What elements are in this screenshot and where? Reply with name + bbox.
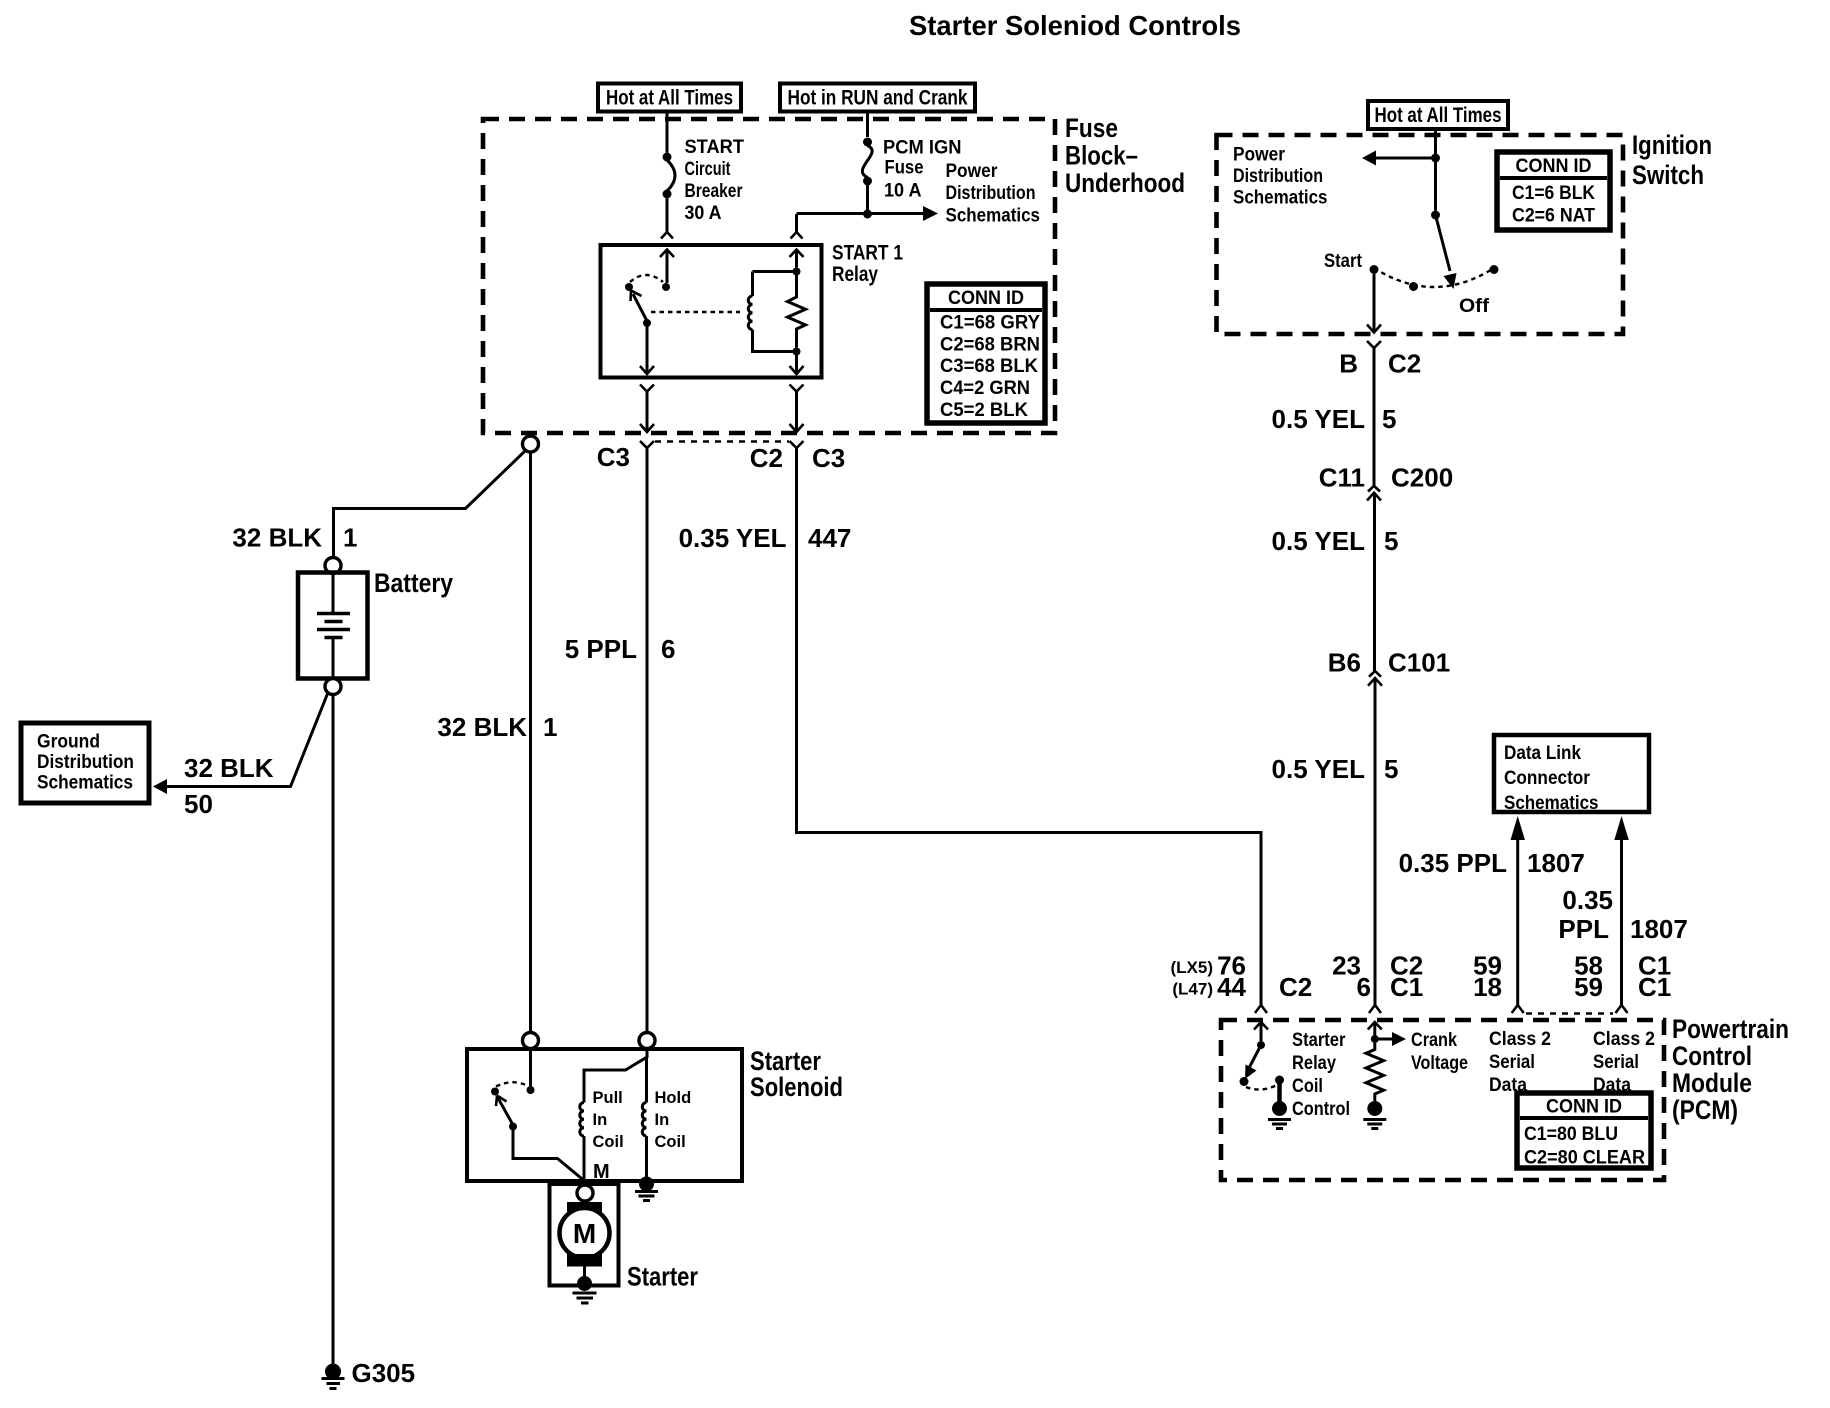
label B6 C101 (1328, 648, 1450, 678)
svg-text:Serial: Serial (1489, 1052, 1535, 1073)
svg-text:Fuse: Fuse (1065, 113, 1118, 143)
svg-text:CONN ID: CONN ID (1516, 156, 1592, 177)
label box Hot at All Times (ignition) (1368, 101, 1508, 129)
connector C3 dashed link (655, 440, 789, 442)
svg-text:5: 5 (1382, 404, 1396, 434)
svg-text:Schematics: Schematics (946, 206, 1041, 227)
solenoid switch input wire (529, 1049, 532, 1087)
svg-text:Powertrain: Powertrain (1672, 1014, 1789, 1044)
battery symbol (317, 573, 350, 679)
wire hot box into ignition switch (1434, 129, 1437, 211)
svg-text:START: START (685, 137, 745, 158)
Ground Distribution Schematics box (21, 723, 149, 803)
svg-text:Schematics: Schematics (1504, 793, 1599, 814)
ground at PCM resistor (1363, 1101, 1386, 1129)
svg-text:0.5 YEL: 0.5 YEL (1272, 526, 1366, 556)
label 0.5 YEL 5 (upper) (1272, 404, 1397, 434)
wire relay coil to PCM (0.35 YEL 447) (797, 448, 1262, 1005)
svg-text:G305: G305 (352, 1358, 416, 1388)
svg-text:Schematics: Schematics (1233, 188, 1328, 209)
node battery tap circle on fuse block (523, 436, 539, 452)
svg-text:Hold: Hold (655, 1089, 692, 1107)
PCM switch lever with arrow (1245, 1045, 1261, 1079)
connector fork at PCM pin 6 (1369, 1005, 1381, 1013)
wire CB to relay connector fork (661, 199, 673, 239)
ground at hold coil (635, 1177, 658, 1201)
svg-text:Block–: Block– (1065, 141, 1138, 171)
svg-text:Voltage: Voltage (1411, 1053, 1468, 1074)
svg-text:C11: C11 (1319, 463, 1365, 493)
svg-text:6: 6 (661, 634, 675, 664)
ground G305 (322, 1364, 345, 1389)
hold in coil winding (642, 1103, 646, 1179)
svg-text:Control: Control (1292, 1099, 1350, 1120)
relay coil output wire with down arrow (790, 352, 804, 375)
relay coil output fork below box (790, 385, 804, 432)
wire C200 to C101 (1373, 493, 1376, 671)
svg-text:447: 447 (808, 523, 851, 553)
svg-text:5: 5 (1384, 526, 1398, 556)
circuit breaker CB 30A (663, 153, 676, 199)
relay switch pivot dot (643, 319, 651, 327)
node fuse output junction (863, 210, 872, 219)
wire relay switch to solenoid (646, 448, 649, 1033)
PCM dashed box (1221, 1020, 1664, 1180)
solenoid switch left contact dot (491, 1088, 499, 1096)
svg-text:Starter Soleniod Controls: Starter Soleniod Controls (909, 10, 1241, 41)
svg-text:C1=80 BLU: C1=80 BLU (1524, 1124, 1618, 1145)
battery box (298, 573, 368, 679)
svg-text:Serial: Serial (1593, 1052, 1639, 1073)
svg-text:Distribution: Distribution (1233, 166, 1323, 187)
svg-text:Switch: Switch (1632, 160, 1704, 190)
solenoid right terminal (639, 1033, 655, 1049)
svg-text:Class 2: Class 2 (1489, 1029, 1551, 1050)
svg-text:0.5 YEL: 0.5 YEL (1272, 754, 1366, 784)
wire junction down to relay coil fork (791, 214, 803, 239)
svg-text:Coil: Coil (655, 1133, 686, 1151)
relay switch left contact (625, 283, 633, 291)
node relay coil bottom (793, 348, 801, 356)
svg-text:32 BLK: 32 BLK (184, 753, 274, 783)
svg-text:1: 1 (543, 712, 557, 742)
svg-text:C2=80 CLEAR: C2=80 CLEAR (1524, 1148, 1645, 1169)
svg-text:Fuse: Fuse (885, 158, 924, 179)
svg-text:C1: C1 (1390, 972, 1423, 1002)
svg-text:Off: Off (1459, 296, 1490, 317)
solenoid left terminal (523, 1033, 539, 1049)
ignition switch dashed arc (1374, 268, 1494, 287)
svg-text:Module: Module (1672, 1068, 1752, 1098)
label 0.35 YEL 447 (679, 523, 852, 553)
node arrow junction (1431, 154, 1440, 163)
PCM crank voltage node (1371, 1035, 1379, 1043)
connector C3 fork below fuse block (switch) (640, 441, 654, 448)
svg-text:44: 44 (1217, 972, 1246, 1002)
relay pin arrow (switch input) (660, 250, 674, 284)
connector fork at PCM pin 59 (1616, 1005, 1628, 1013)
CONN ID box (fuse block) (927, 284, 1045, 423)
svg-text:6: 6 (1357, 972, 1371, 1002)
label 58 59 (1574, 951, 1603, 1003)
svg-text:C2: C2 (750, 443, 783, 473)
connector fork at PCM pin 44 (1255, 1005, 1267, 1013)
svg-text:Hot at All Times: Hot at All Times (1375, 104, 1502, 127)
svg-text:10 A: 10 A (884, 181, 922, 202)
svg-text:0.35 YEL: 0.35 YEL (679, 523, 787, 553)
svg-text:CONN ID: CONN ID (1546, 1097, 1622, 1118)
svg-text:Relay: Relay (1292, 1053, 1336, 1074)
svg-text:5: 5 (1384, 754, 1398, 784)
solenoid switch lower dot (509, 1123, 517, 1131)
starter box (550, 1184, 619, 1286)
svg-text:Connector: Connector (1504, 768, 1591, 789)
relay switch lever with arrow (631, 291, 648, 322)
svg-text:C2: C2 (1388, 349, 1421, 379)
label 23 C2 (1332, 951, 1423, 981)
svg-text:CONN ID: CONN ID (948, 288, 1024, 309)
solenoid switch pivot dot (527, 1086, 535, 1094)
wire hot box to circuit breaker (666, 112, 669, 153)
starter brush block bottom (567, 1254, 602, 1267)
svg-text:Class 2: Class 2 (1593, 1029, 1655, 1050)
fuse block underhood dashed box (483, 119, 1055, 433)
label Class 2 Serial Data (right) (1593, 1029, 1655, 1096)
wire tap to solenoid S terminal (529, 452, 532, 1033)
battery bottom terminal (325, 679, 341, 695)
svg-text:Power: Power (1233, 145, 1286, 166)
svg-text:Coil: Coil (593, 1133, 624, 1151)
PCM switch dashed arc (1246, 1085, 1277, 1090)
svg-text:18: 18 (1473, 972, 1502, 1002)
starter brush block top (567, 1202, 602, 1212)
svg-text:Circuit: Circuit (685, 159, 732, 180)
solenoid switch lever with arrow (496, 1096, 513, 1126)
svg-text:Distribution: Distribution (946, 183, 1036, 204)
label 6 C1 (1357, 972, 1424, 1002)
PCM pin 44 arrow (1254, 1022, 1268, 1041)
svg-text:0.35: 0.35 (1562, 885, 1613, 915)
battery top terminal (325, 558, 341, 574)
label box Hot at All Times (fuse block) (598, 84, 741, 112)
connector C3 fork below fuse block (coil) (790, 441, 804, 448)
svg-text:Battery: Battery (374, 568, 453, 598)
PCM pin 6 arrow (1368, 1022, 1382, 1041)
PCM resistor crank voltage (1366, 1043, 1384, 1101)
svg-text:(LX5): (LX5) (1171, 958, 1214, 977)
label 32 BLK 1 (battery feed) (232, 523, 357, 553)
svg-text:0.35 PPL: 0.35 PPL (1399, 848, 1508, 878)
relay coil winding (748, 272, 796, 352)
label 32 BLK 1 (solenoid feed) (437, 712, 557, 742)
svg-text:Solenoid: Solenoid (750, 1072, 843, 1102)
svg-text:1807: 1807 (1630, 914, 1688, 944)
relay coil pin arrow (790, 250, 804, 268)
starter motor M (560, 1208, 610, 1258)
svg-text:32 BLK: 32 BLK (232, 523, 322, 553)
svg-text:Crank: Crank (1411, 1030, 1457, 1051)
label PCM IGN Fuse 10 A (883, 138, 962, 202)
svg-text:Starter: Starter (627, 1262, 698, 1292)
fuse PCM IGN 10A (862, 138, 872, 186)
wire battery to ground distribution arrow (153, 693, 328, 795)
wire fuse to junction (866, 185, 869, 215)
label Starter Relay Coil Control (1292, 1030, 1350, 1120)
svg-text:30 A: 30 A (685, 203, 722, 224)
svg-text:C2=6 NAT: C2=6 NAT (1512, 206, 1595, 227)
svg-text:C3=68 BLK: C3=68 BLK (940, 356, 1038, 377)
hold in coil wire (645, 1057, 648, 1103)
dashed link C1 connector (1526, 1012, 1613, 1014)
svg-text:Data Link: Data Link (1504, 743, 1581, 764)
solenoid switch dashed arc (496, 1082, 527, 1086)
label Ignition Switch (1632, 130, 1712, 190)
svg-text:Breaker: Breaker (685, 181, 743, 202)
starter ground wire (583, 1267, 586, 1280)
svg-text:Power: Power (946, 161, 999, 182)
svg-text:In: In (593, 1111, 608, 1129)
svg-text:Hot at All Times: Hot at All Times (606, 87, 733, 110)
relay switch stationary contact (662, 283, 670, 291)
CONN ID box (ignition) (1497, 152, 1610, 230)
ignition switch input contact (1431, 211, 1440, 220)
relay switch output fork below box (640, 385, 654, 432)
ground at starter (573, 1276, 597, 1303)
wire tap to battery (334, 451, 526, 558)
svg-text:Starter: Starter (1292, 1030, 1346, 1051)
connector B6 C101 (1368, 671, 1382, 686)
label START Circuit Breaker 30 A (685, 137, 745, 224)
svg-text:Hot in RUN and Crank: Hot in RUN and Crank (788, 87, 968, 110)
svg-text:C2=68 BRN: C2=68 BRN (940, 335, 1040, 356)
ground at PCM switch (1268, 1101, 1291, 1129)
svg-text:Start: Start (1324, 251, 1363, 272)
solenoid switch output to M stud (513, 1127, 584, 1181)
wire Start contact to box edge with arrow (1367, 274, 1381, 333)
crank voltage arrow (1375, 1032, 1406, 1046)
svg-text:Ignition: Ignition (1632, 130, 1712, 160)
svg-text:C4=2 GRN: C4=2 GRN (940, 378, 1030, 399)
wire class 2 serial data (pin 58/59 left) to data link (1511, 816, 1526, 1005)
svg-text:In: In (655, 1111, 670, 1129)
PCM switch ground contact (1275, 1076, 1284, 1104)
relay coil output arrow at fuse block edge (790, 424, 804, 432)
svg-text:C3: C3 (812, 443, 845, 473)
svg-text:C2: C2 (1279, 972, 1312, 1002)
relay box START 1 (601, 245, 822, 378)
svg-text:M: M (573, 1218, 596, 1249)
starter solenoid box (467, 1049, 742, 1181)
svg-text:32 BLK: 32 BLK (437, 712, 527, 742)
svg-text:C5=2 BLK: C5=2 BLK (940, 400, 1028, 421)
svg-text:M: M (593, 1161, 610, 1183)
relay switch dashed arc (630, 275, 663, 282)
svg-text:C3: C3 (597, 442, 630, 472)
CONN ID box (PCM) (1517, 1093, 1651, 1169)
svg-text:C1=6 BLK: C1=6 BLK (1512, 183, 1595, 204)
label Hold In Coil (655, 1089, 692, 1151)
label 59 18 (1473, 951, 1502, 1003)
svg-text:B6: B6 (1328, 648, 1361, 678)
svg-text:C101: C101 (1388, 648, 1450, 678)
label START 1 Relay (832, 242, 903, 287)
node mid contact (1409, 282, 1418, 291)
svg-text:0.5 YEL: 0.5 YEL (1272, 404, 1366, 434)
label 0.35 PPL 1807 (left) (1399, 848, 1585, 878)
label Pull In Coil (593, 1089, 624, 1151)
label C1 C1 (1638, 951, 1671, 1003)
PCM switch lower contact dot (1240, 1077, 1249, 1086)
label Power Distribution Schematics (ignition) (1233, 145, 1328, 209)
svg-text:(L47): (L47) (1172, 980, 1213, 999)
wire C101 to PCM (1374, 678, 1377, 1005)
wire to power distribution arrow (left) (1362, 151, 1436, 166)
ignition switch lever with arrow (1436, 215, 1457, 289)
label (L47) 44 C2 row (1172, 972, 1312, 1002)
svg-text:1807: 1807 (1527, 848, 1585, 878)
svg-text:Ground: Ground (37, 732, 100, 753)
label 32 BLK 50 (184, 753, 274, 819)
svg-text:PCM IGN: PCM IGN (883, 138, 962, 159)
connector C2 fork below ignition box (1367, 341, 1381, 348)
svg-text:PPL: PPL (1558, 914, 1609, 944)
pull in coil winding (580, 1103, 584, 1181)
node relay coil top (793, 268, 801, 276)
svg-text:Distribution: Distribution (37, 752, 134, 773)
node right contact (1490, 265, 1499, 274)
relay coil parallel resistor (788, 272, 806, 348)
pull in coil feed wire (584, 1049, 647, 1103)
ignition switch dashed box (1217, 135, 1624, 334)
label 0.5 YEL 5 (middle) (1272, 526, 1399, 556)
svg-text:C1=68 GRY: C1=68 GRY (940, 313, 1040, 334)
label 5 PPL 6 (565, 634, 676, 664)
label B C2 (1339, 349, 1421, 379)
label C11 C200 (1319, 463, 1453, 493)
label Class 2 Serial Data (left) (1489, 1029, 1551, 1096)
wire battery to G305 (332, 695, 335, 1365)
svg-text:Underhood: Underhood (1065, 168, 1185, 198)
label 0.35 PPL 1807 (right) (1558, 885, 1687, 944)
svg-text:Coil: Coil (1292, 1076, 1323, 1097)
svg-text:Relay: Relay (832, 263, 878, 286)
wire hot box to fuse (866, 112, 869, 138)
label 0.5 YEL 5 (lower) (1272, 754, 1399, 784)
PCM switch upper dot (1257, 1041, 1265, 1049)
node Start contact (1370, 265, 1379, 274)
label (LX5) 76 row (1171, 951, 1247, 981)
M terminal circle (577, 1185, 593, 1201)
svg-text:Control: Control (1672, 1041, 1752, 1071)
svg-text:START 1: START 1 (832, 242, 903, 265)
relay dashed link switch-coil (651, 311, 740, 313)
label Crank Voltage (1411, 1030, 1468, 1074)
svg-text:59: 59 (1574, 972, 1603, 1002)
label Starter Solenoid (750, 1046, 843, 1102)
wire junction to power distribution arrow (797, 206, 939, 221)
relay switch output arrow at fuse block edge (640, 424, 654, 432)
label Power Distribution Schematics (fuse block) (946, 161, 1041, 227)
svg-text:B: B (1339, 349, 1358, 379)
connector fork at PCM pin 18 (1512, 1005, 1524, 1013)
Data Link Connector Schematics box (1494, 735, 1649, 814)
svg-text:Schematics: Schematics (37, 773, 133, 794)
label Powertrain Control Module (PCM) (1672, 1014, 1789, 1125)
connector C11 C200 (1367, 486, 1381, 501)
wire to C200 (1373, 348, 1376, 486)
svg-text:C200: C200 (1391, 463, 1453, 493)
wire class 2 serial data (pin C1 right) to data link (1614, 816, 1629, 1005)
svg-text:(PCM): (PCM) (1672, 1095, 1738, 1125)
relay switch output wire with down arrow (640, 323, 654, 374)
label box Hot in RUN and Crank (780, 84, 975, 112)
svg-text:C1: C1 (1638, 972, 1671, 1002)
svg-text:50: 50 (184, 789, 213, 819)
label Fuse Block-Underhood (1065, 113, 1185, 198)
svg-text:Pull: Pull (593, 1089, 623, 1107)
svg-text:5 PPL: 5 PPL (565, 634, 637, 664)
svg-text:1: 1 (343, 523, 357, 553)
